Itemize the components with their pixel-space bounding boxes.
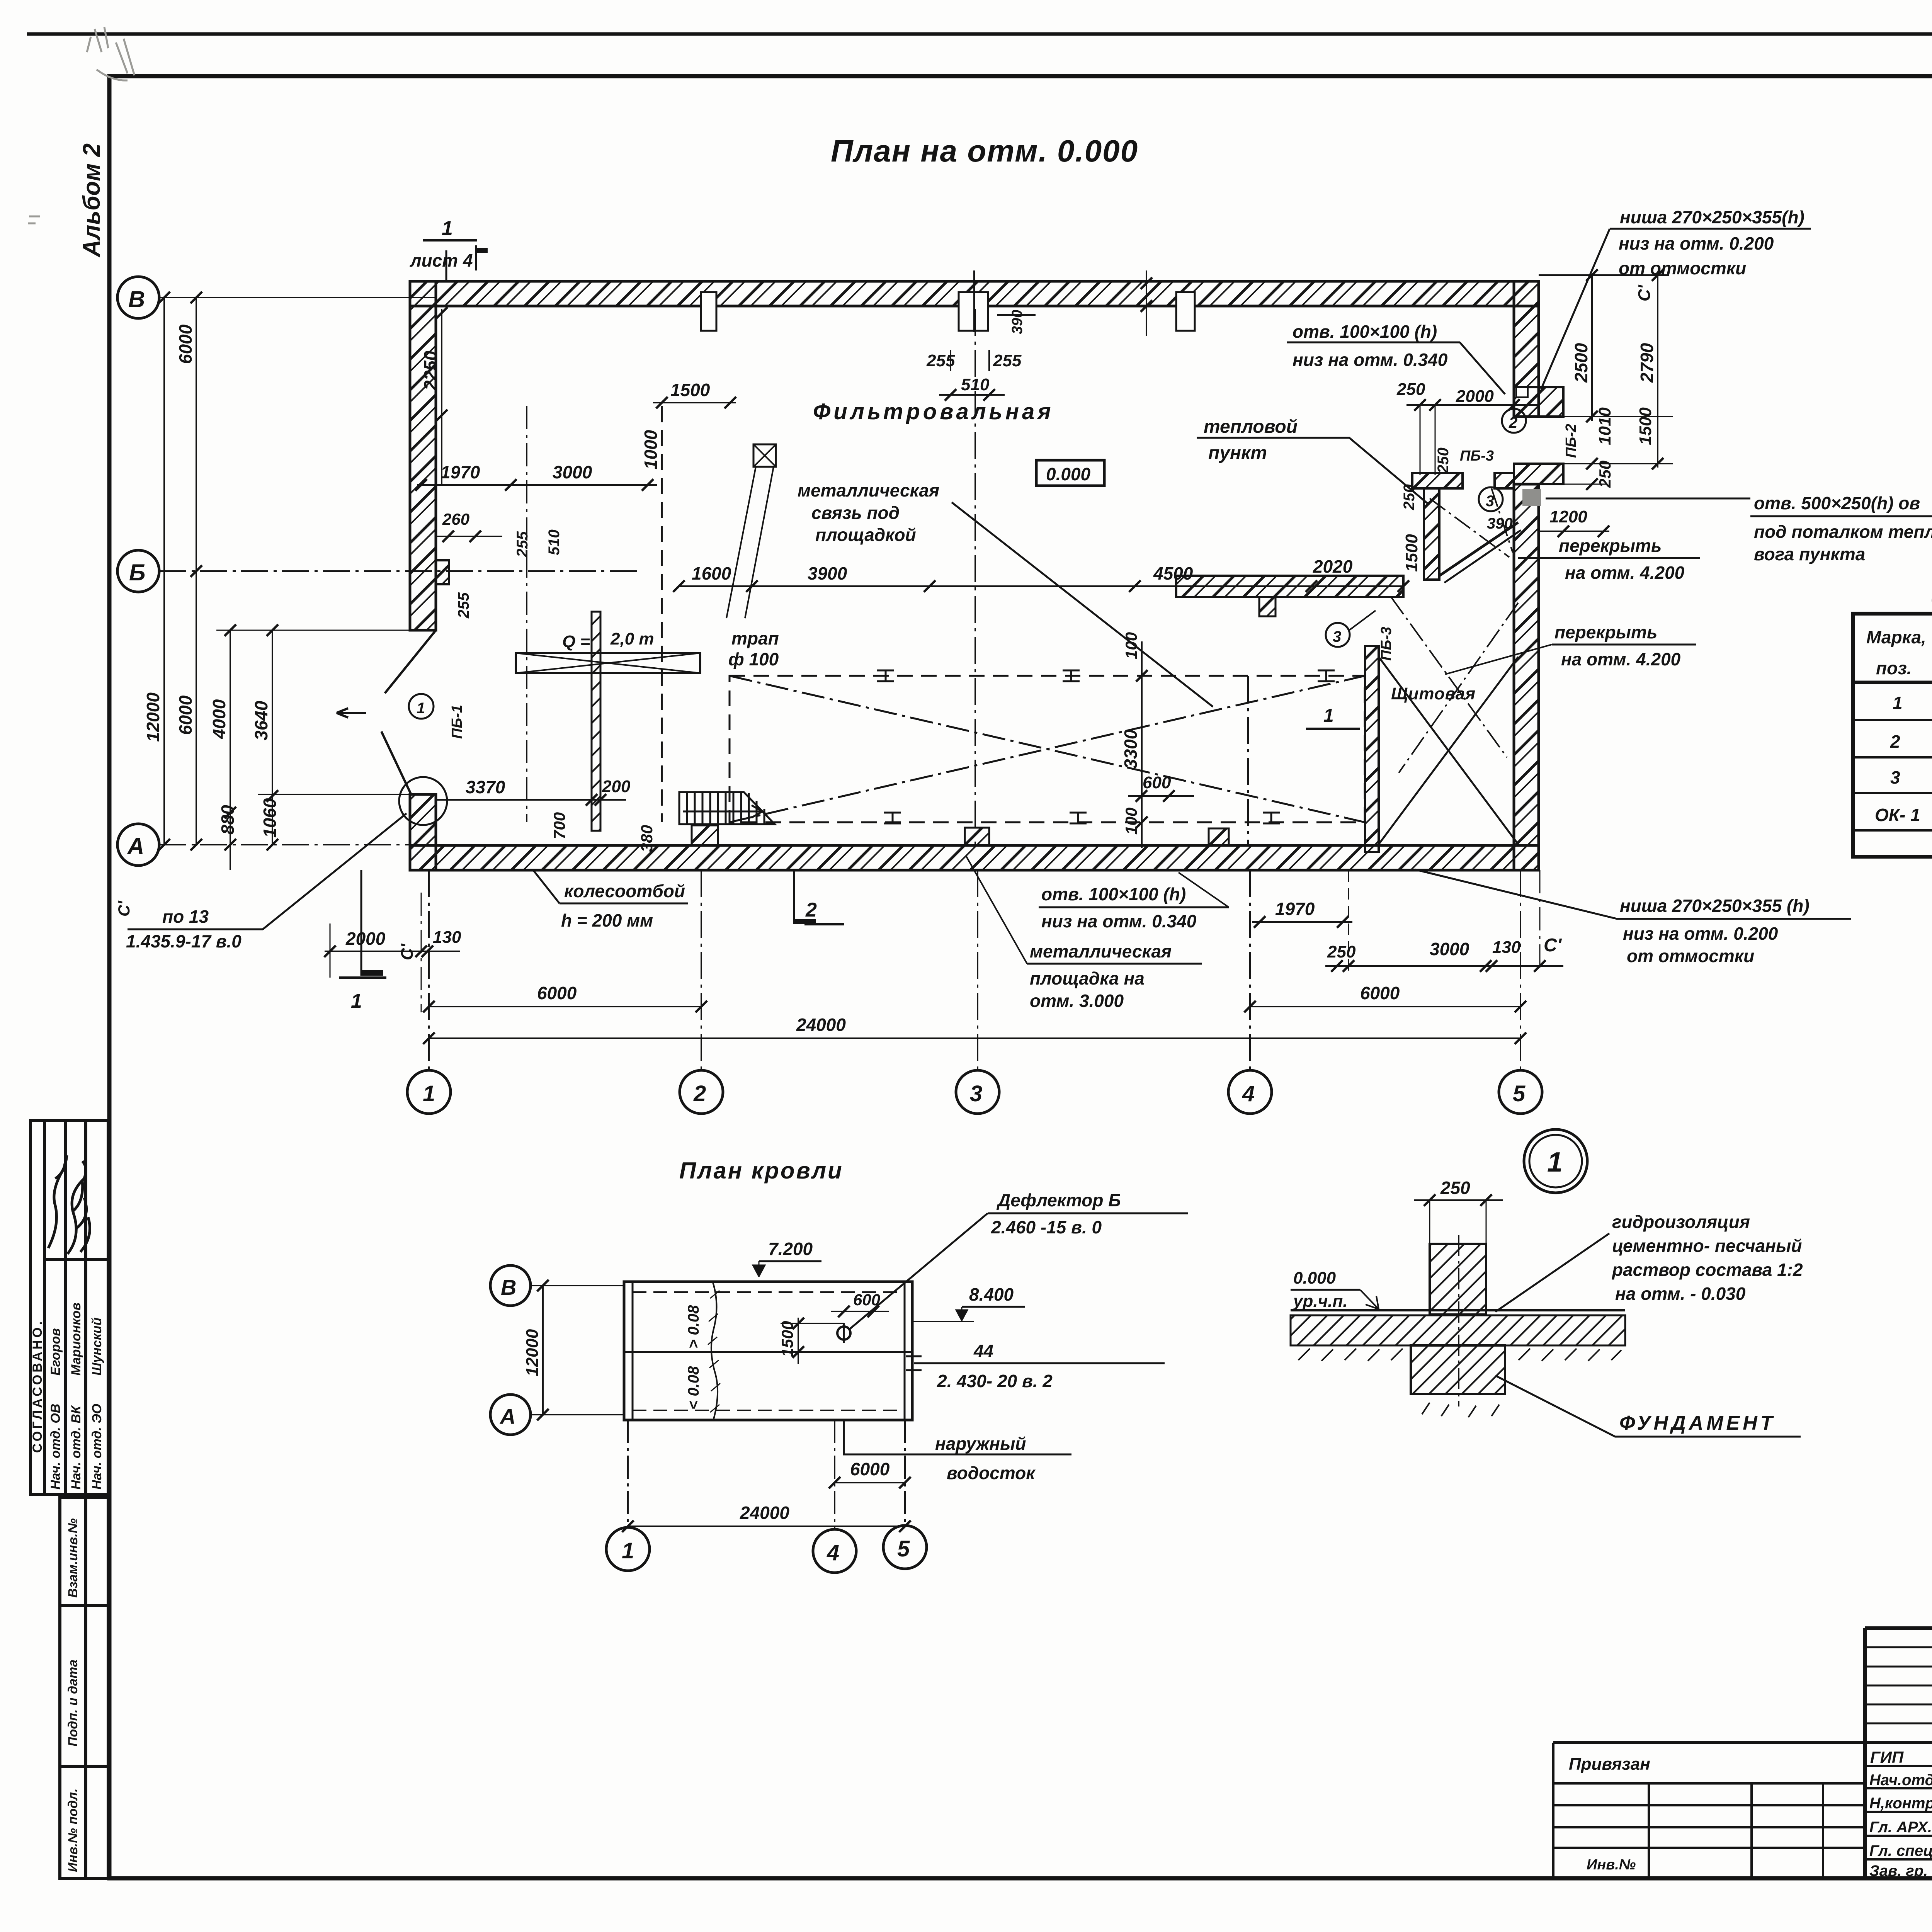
svg-text:1: 1 [1893,693,1903,713]
svg-text:4000: 4000 [209,699,229,739]
svg-text:> 0.08: > 0.08 [685,1305,702,1349]
svg-text:3640: 3640 [251,701,271,740]
svg-text:510: 510 [546,529,563,555]
svg-text:Зав. гр.: Зав. гр. [1869,1862,1928,1879]
wall column hatched [1430,1244,1486,1315]
heat point door swing (dash-dot) [1492,488,1513,553]
svg-text:ниша 270×250×355(h): ниша 270×250×355(h) [1620,207,1804,227]
svg-text:Нач. отд. ОВ: Нач. отд. ОВ [48,1404,63,1490]
svg-text:ниша 270×250×355 (h): ниша 270×250×355 (h) [1620,896,1810,916]
node reference circle on lower-left corner [399,777,447,825]
dim 2000/130 bottom left [325,951,460,952]
svg-text:Нач.отд.: Нач.отд. [1869,1772,1932,1789]
svg-text:С': С' [398,943,417,960]
heat point room: left wall [1424,488,1439,580]
svg-text:h = 200 мм: h = 200 мм [561,910,653,930]
heat point room: diagonal partition [1439,522,1518,576]
svg-text:4: 4 [1242,1081,1255,1106]
svg-text:3: 3 [1890,767,1900,787]
svg-text:1: 1 [417,700,425,717]
window openings bottom wall [692,825,1229,845]
niche in jamb [1516,387,1528,397]
svg-text:Щитовая: Щитовая [1391,684,1476,703]
svg-text:В: В [128,286,145,312]
svg-text:6000: 6000 [175,324,196,364]
svg-text:1600: 1600 [692,563,731,583]
left margin inventory table [60,1497,108,1878]
svg-text:1: 1 [622,1538,634,1563]
svg-text:наружный: наружный [935,1434,1026,1454]
svg-text:1200: 1200 [1549,507,1587,526]
svg-text:12000: 12000 [523,1329,542,1376]
svg-text:250: 250 [1440,1178,1470,1198]
svg-text:Взам.инв.№: Взам.инв.№ [66,1518,80,1598]
floor drain (трап) symbol [753,444,776,467]
metal platform above (dashed outline) [730,676,1365,822]
approval signatures (squiggles) [48,1155,90,1254]
foundation [1411,1345,1505,1394]
slope break curve [711,1282,718,1419]
svg-text:255: 255 [993,351,1022,370]
witness lines for gate [216,630,436,631]
I-beam marks on platform [877,670,1335,823]
svg-text:Дефлектор Б: Дефлектор Б [996,1190,1121,1210]
axis circle В [117,277,159,318]
interior dim chain 1600/3900/4500/2020 [679,585,1403,587]
svg-text:100: 100 [1122,632,1140,659]
dim 3370/200 [436,799,626,801]
svg-text:водосток: водосток [947,1463,1036,1483]
svg-text:250: 250 [1327,942,1356,961]
svg-text:площадка на: площадка на [1030,968,1145,988]
svg-text:2: 2 [805,899,817,921]
svg-text:пункт: пункт [1208,443,1267,463]
axis В line [159,297,436,298]
svg-text:Инв.№: Инв.№ [1587,1857,1636,1873]
svg-text:1060: 1060 [260,798,280,838]
right wall lower segment [1514,484,1539,870]
wheel guard wall [592,612,600,831]
svg-text:4: 4 [827,1540,839,1565]
platform diagonals dash-dot [730,676,1365,822]
svg-text:Б: Б [129,560,145,585]
deflector circle [837,1327,850,1340]
elevation box 0.000 [1036,460,1104,486]
svg-text:700: 700 [550,812,568,839]
roof dim 24000 [628,1526,905,1527]
svg-text:низ на отм. 0.200: низ на отм. 0.200 [1619,233,1774,253]
ground hatch ticks [1298,1349,1621,1417]
axis Б dash-dot [159,570,639,572]
svg-text:А: А [499,1404,515,1429]
svg-text:380: 380 [638,825,656,852]
roof bottom axes [627,1420,629,1527]
svg-text:План на отм. 0.000: План на отм. 0.000 [831,134,1138,168]
svg-text:2: 2 [1890,731,1900,752]
svg-text:ПБ-3: ПБ-3 [1460,448,1494,464]
platform dims 100/3300/100/600 [1141,641,1143,848]
crane beam Q=2.0t [516,653,700,673]
svg-text:Q =: Q = [562,632,590,651]
svg-text:1: 1 [1323,706,1334,726]
svg-text:отм. 3.000: отм. 3.000 [1030,991,1124,1011]
opening mark 1 with circle [409,694,434,719]
svg-text:под поталком тепло-: под поталком тепло- [1754,522,1932,542]
line near 4 witness [1146,270,1147,336]
svg-text:24000: 24000 [740,1503,789,1523]
svg-text:перекрыть: перекрыть [1554,622,1657,642]
svg-text:1: 1 [351,990,362,1012]
axis 4 interior dash-dot [1247,676,1249,845]
vertical dim line 6000/6000 [196,298,197,845]
svg-text:2790: 2790 [1637,343,1657,383]
right wall upper segment [1514,281,1539,417]
svg-text:1: 1 [1547,1147,1563,1178]
dim 1500 [653,402,736,403]
roof axis А [490,1395,531,1435]
svg-text:ФУНДАМЕНТ: ФУНДАМЕНТ [1619,1412,1776,1434]
svg-text:7.200: 7.200 [768,1239,813,1259]
left wall upper (axis 1) [410,281,436,630]
svg-text:6000: 6000 [175,695,196,735]
dim 250/2000 above heat point [1406,404,1539,406]
svg-text:3: 3 [1486,493,1494,510]
dashed line right of crane [661,406,663,822]
gate open direction arrow [337,708,366,718]
svg-text:План кровли: План кровли [679,1158,844,1184]
svg-text:2,0 т: 2,0 т [610,629,654,648]
svg-text:на отм. 4.200: на отм. 4.200 [1565,563,1685,583]
heat point room: top wall segment with door gap [1412,473,1463,488]
svg-text:1.435.9-17 в.0: 1.435.9-17 в.0 [126,931,241,951]
svg-text:связь под: связь под [811,503,900,523]
svg-text:Марка,: Марка, [1866,627,1926,647]
svg-text:1970: 1970 [440,462,480,482]
svg-text:3000: 3000 [1430,939,1469,959]
svg-text:В: В [501,1275,516,1299]
svg-text:250: 250 [1401,484,1418,510]
svg-text:< 0.08: < 0.08 [685,1366,702,1410]
axis circle А [117,824,159,866]
dim 1970/3000 [417,484,657,486]
svg-text:на отм. - 0.030: на отм. - 0.030 [1615,1284,1746,1304]
svg-text:2. 430- 20 в. 2: 2. 430- 20 в. 2 [937,1371,1053,1391]
svg-text:880: 880 [218,805,238,835]
svg-text:Нач. отд. ЭО: Нач. отд. ЭО [90,1404,104,1490]
svg-text:колесоотбой: колесоотбой [564,881,685,901]
left attachment table [1553,1743,1865,1878]
svg-text:4500: 4500 [1153,563,1193,583]
svg-text:6000: 6000 [537,983,577,1003]
roof outline [624,1282,912,1420]
switchboard room cross bracing [1379,657,1518,844]
dim 6000 left / right [429,1006,701,1007]
roof dim 6000 [835,1482,905,1483]
sheet top edge [27,32,1932,36]
node 1 circle [1524,1129,1587,1193]
svg-text:поз.: поз. [1876,658,1912,678]
svg-text:А: А [127,833,144,859]
door 2 opening jamb top (juts right) [1514,387,1563,417]
svg-text:Фильтровальная: Фильтровальная [813,399,1054,424]
svg-text:3370: 3370 [466,777,505,797]
crane rail axis dash-dot [526,406,527,822]
svg-text:5: 5 [897,1536,910,1561]
svg-text:2250: 2250 [420,350,440,391]
external drain note [844,1420,1071,1454]
svg-text:отв. 500×250(h) ов: отв. 500×250(h) ов [1754,493,1920,513]
svg-text:Н,контр.: Н,контр. [1869,1795,1932,1812]
centerline [1458,1235,1459,1406]
svg-text:Инв.№ подл.: Инв.№ подл. [66,1788,80,1872]
svg-text:6000: 6000 [1360,983,1400,1003]
gate dim lines [230,630,231,870]
axis 3 witness through wall [973,270,975,332]
svg-text:Гл. АРХ.: Гл. АРХ. [1869,1819,1932,1836]
svg-text:600: 600 [1143,773,1171,792]
svg-text:130: 130 [433,928,461,947]
svg-text:Нач. отд. ВК: Нач. отд. ВК [69,1405,83,1490]
svg-text:металлическая: металлическая [1030,941,1172,961]
roof axis В [490,1265,531,1306]
lintel ПБ-3 band over opening [1176,576,1403,597]
svg-text:12000: 12000 [143,692,163,742]
svg-text:2: 2 [1509,414,1517,431]
svg-text:2.460 -15 в. 0: 2.460 -15 в. 0 [991,1217,1102,1237]
svg-text:2: 2 [693,1081,706,1106]
svg-text:Егоров: Егоров [48,1328,63,1376]
svg-text:лист 4: лист 4 [410,250,473,270]
door 2 opening jamb bottom [1514,464,1563,484]
svg-text:0.000: 0.000 [1293,1269,1336,1287]
svg-text:отв. 100×100 (h): отв. 100×100 (h) [1293,321,1437,342]
svg-text:1: 1 [423,1081,435,1106]
отв 500х250 note with leader [1522,489,1541,506]
svg-text:260: 260 [442,510,469,528]
svg-text:перекрыть: перекрыть [1559,536,1662,556]
switchboard room (Щитовая) left wall [1365,646,1379,852]
svg-text:раствор состава 1:2: раствор состава 1:2 [1611,1260,1803,1280]
svg-text:Подп. и дата: Подп. и дата [66,1660,80,1747]
svg-text:510: 510 [961,375,990,394]
svg-text:44: 44 [973,1341,993,1361]
floor line [1291,1309,1625,1311]
top wall (axis В) [410,281,1539,306]
bottom wall (axis А) [410,845,1539,870]
svg-text:200: 200 [602,777,631,796]
axis circle Б [117,550,159,592]
svg-text:Гл. спец.: Гл. спец. [1869,1842,1932,1859]
left wall lower stub below gate [410,794,436,870]
svg-text:255: 255 [455,592,472,619]
svg-text:1: 1 [442,217,453,240]
vertical dims 2500 / 2790 [1591,275,1593,421]
svg-text:2000: 2000 [345,929,386,949]
section 1-1 bottom mark [361,870,362,976]
svg-text:8.400: 8.400 [969,1284,1014,1304]
svg-text:250: 250 [1435,447,1452,474]
svg-text:по 13: по 13 [162,906,209,927]
svg-text:ПБ-3: ПБ-3 [1378,627,1395,661]
svg-text:1970: 1970 [1275,899,1315,919]
svg-text:от отмостки: от отмостки [1627,946,1754,966]
svg-text:255: 255 [514,531,531,558]
vertical dim line 12000 [163,298,165,845]
pencil scribbles top-left [28,27,134,223]
svg-text:0.000: 0.000 [1046,464,1091,484]
svg-text:24000: 24000 [796,1015,846,1035]
window openings top wall [701,292,1195,331]
svg-text:5: 5 [1513,1081,1526,1106]
svg-text:ур.ч.п.: ур.ч.п. [1293,1292,1348,1311]
signature rows [1865,1765,1932,1767]
axis А dash-dot [159,844,871,845]
gate leaves (open) [381,630,436,794]
stairs [679,792,775,824]
svg-text:ПБ-2: ПБ-2 [1563,424,1579,458]
svg-text:250: 250 [1396,380,1425,399]
dim 250/3000/130 bottom right [1325,965,1563,967]
svg-text:Марионков: Марионков [69,1303,83,1376]
svg-text:100: 100 [1122,808,1140,835]
svg-text:отв. 100×100 (h): отв. 100×100 (h) [1041,884,1186,904]
left margin approval table (СОГЛАСОВАНО) [31,1121,108,1495]
dim 2250 vertical [441,309,442,485]
svg-text:1000: 1000 [641,430,661,469]
svg-text:2500: 2500 [1571,343,1591,383]
svg-text:1010: 1010 [1595,407,1614,445]
roof dim 12000 [542,1286,544,1415]
svg-text:С': С' [1635,284,1654,301]
left wall pilaster step near Б [436,560,449,584]
svg-text:низ на отм. 0.200: низ на отм. 0.200 [1623,923,1778,944]
section 2-2 bottom mark [793,870,795,924]
svg-text:Привязан: Привязан [1569,1755,1650,1774]
axis 3 interior dash-dot [975,309,976,845]
С' mark top right [1539,274,1669,276]
svg-text:гидроизоляция: гидроизоляция [1612,1212,1750,1232]
svg-text:1500: 1500 [1636,407,1655,445]
svg-text:ф 100: ф 100 [728,649,779,669]
svg-text:3: 3 [970,1081,982,1106]
svg-text:низ на отм. 0.340: низ на отм. 0.340 [1293,350,1448,370]
svg-text:130: 130 [1492,938,1521,957]
svg-text:1500: 1500 [778,1321,796,1357]
ridge line [624,1351,912,1353]
dim 24000 [429,1037,1520,1039]
svg-text:Альбом 2: Альбом 2 [78,143,105,258]
svg-text:ГИП: ГИП [1870,1748,1904,1766]
svg-text:тепловой: тепловой [1204,417,1298,437]
small revision rows [1865,1646,1932,1648]
svg-text:СОГЛАСОВАНО.: СОГЛАСОВАНО. [30,1319,45,1453]
svg-text:3: 3 [1333,628,1341,645]
svg-text:ОК- 1: ОК- 1 [1875,805,1920,825]
outer lines [1865,1628,1932,1878]
svg-text:ПБ-1: ПБ-1 [449,705,465,739]
svg-text:3000: 3000 [553,462,592,482]
svg-text:площадкой: площадкой [815,525,916,545]
switchboard door swing dash-dot [1391,597,1507,757]
svg-text:Шунский: Шунский [90,1317,104,1376]
slab band [1291,1315,1625,1345]
svg-text:низ на отм. 0.340: низ на отм. 0.340 [1041,911,1197,931]
svg-text:6000: 6000 [850,1459,890,1479]
svg-text:1500: 1500 [1402,534,1421,572]
svg-text:С': С' [1544,935,1562,956]
bottom axis lines and circles [428,870,430,1070]
svg-text:2000: 2000 [1456,387,1494,406]
svg-text:3300: 3300 [1121,729,1141,769]
svg-text:2020: 2020 [1313,556,1353,577]
svg-text:трап: трап [731,628,779,648]
svg-text:1500: 1500 [670,380,710,400]
svg-text:С': С' [115,900,133,917]
svg-text:на отм. 4.200: на отм. 4.200 [1561,649,1681,669]
small pier left of lintel band [1259,597,1276,616]
svg-text:390: 390 [1009,310,1026,334]
svg-text:вога пункта: вога пункта [1754,544,1865,564]
circled door marks [1502,409,1526,433]
svg-text:цементно- песчаный: цементно- песчаный [1612,1236,1802,1256]
svg-text:390: 390 [1487,515,1513,532]
svg-text:3900: 3900 [808,563,847,583]
svg-text:металлическая: металлическая [798,480,939,500]
